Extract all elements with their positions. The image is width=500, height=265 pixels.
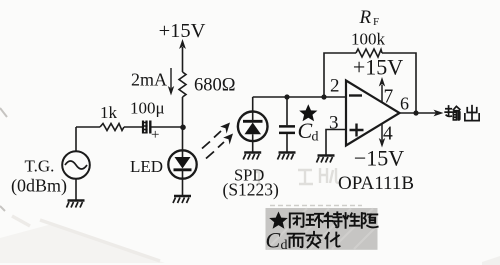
faint scan watermark bottom-left xyxy=(0,224,165,263)
ground (Cd) xyxy=(278,153,296,160)
svg-text:LED: LED xyxy=(130,157,163,176)
faint scan marks left edge xyxy=(0,108,7,211)
svg-text:(0dBm): (0dBm) xyxy=(11,176,67,197)
wire: input horizontal rail xyxy=(76,126,183,128)
node junction dot xyxy=(180,125,186,131)
svg-text:100k: 100k xyxy=(351,30,386,49)
svg-text:6: 6 xyxy=(400,94,409,114)
star marker at Cd xyxy=(299,104,317,121)
wire: T.G. riser xyxy=(75,127,77,152)
svg-text:4: 4 xyxy=(383,124,393,145)
svg-text:1k: 1k xyxy=(100,103,118,122)
svg-text:C: C xyxy=(298,118,313,143)
resistor RF 100k zigzag xyxy=(356,49,382,57)
pin 4 −15V arrow xyxy=(381,123,383,140)
svg-text:OPA111B: OPA111B xyxy=(338,173,414,194)
wire: T.G. to ground xyxy=(75,179,77,200)
source T.G. (sine generator) xyxy=(62,151,90,179)
glyph 输 xyxy=(445,106,460,120)
node: feedback junction xyxy=(321,94,326,99)
wire: pin3 to ground xyxy=(326,130,346,156)
svg-text:F: F xyxy=(373,16,379,28)
light arrows LED to SPD xyxy=(202,131,224,159)
faint dashed scan line above note box xyxy=(270,205,362,207)
svg-text:2mA: 2mA xyxy=(131,70,167,90)
wire: top rail to op-amp inverting input xyxy=(253,96,346,98)
feedback loop wires xyxy=(324,53,416,113)
arrow 2mA current (down) xyxy=(170,68,172,88)
glyph 出 xyxy=(465,106,479,121)
faint mark bottom right corner xyxy=(482,256,500,265)
svg-text:100μ: 100μ xyxy=(130,99,165,118)
svg-text:(S1223): (S1223) xyxy=(223,180,280,200)
svg-text:7: 7 xyxy=(384,87,394,108)
pin 6 output wire xyxy=(400,112,437,114)
svg-text:T.G.: T.G. xyxy=(25,157,55,176)
svg-text:2: 2 xyxy=(330,76,340,97)
wire: resistor to LED vertical xyxy=(182,97,184,151)
svg-text:+15V: +15V xyxy=(159,20,206,42)
resistor 680 ohm (vertical zigzag) xyxy=(179,72,186,97)
ground (T.G.) xyxy=(67,201,85,208)
note star xyxy=(269,212,288,229)
ground (LED) xyxy=(173,196,191,203)
capacitor Cd xyxy=(286,97,288,125)
pin 7 +15V arrow xyxy=(381,85,383,102)
wire: SPD to ground xyxy=(252,141,254,152)
LED D1 xyxy=(168,150,196,178)
resistor 1k (horizontal zigzag) xyxy=(100,124,124,131)
svg-text:d: d xyxy=(312,130,319,145)
label 输出 (output) glyphs xyxy=(445,106,479,121)
node: Cd junction xyxy=(284,94,289,99)
photodiode SPD (S1223) xyxy=(238,112,268,142)
svg-text:C: C xyxy=(266,228,281,253)
svg-text:3: 3 xyxy=(329,113,339,134)
wire: +15V top feed with up arrow xyxy=(182,47,184,72)
op-amp U1 OPA111B triangle xyxy=(346,81,400,146)
minus sign pin2 xyxy=(349,94,362,96)
faint watermark glyph ghosts center xyxy=(255,168,341,184)
svg-text:R: R xyxy=(359,7,372,28)
svg-text:−15V: −15V xyxy=(354,146,404,171)
note line1 闭环特性随 glyphs xyxy=(290,212,378,227)
ground (pin3) xyxy=(317,156,335,163)
plus sign pin3 xyxy=(350,124,364,137)
capacitor 100μ electrolytic xyxy=(142,121,150,134)
svg-text:d: d xyxy=(281,238,288,253)
wire: LED to ground xyxy=(182,179,184,196)
svg-text:680Ω: 680Ω xyxy=(194,76,236,96)
note box background xyxy=(266,208,378,250)
ground (SPD) xyxy=(243,153,261,160)
svg-text:+: + xyxy=(151,127,159,143)
